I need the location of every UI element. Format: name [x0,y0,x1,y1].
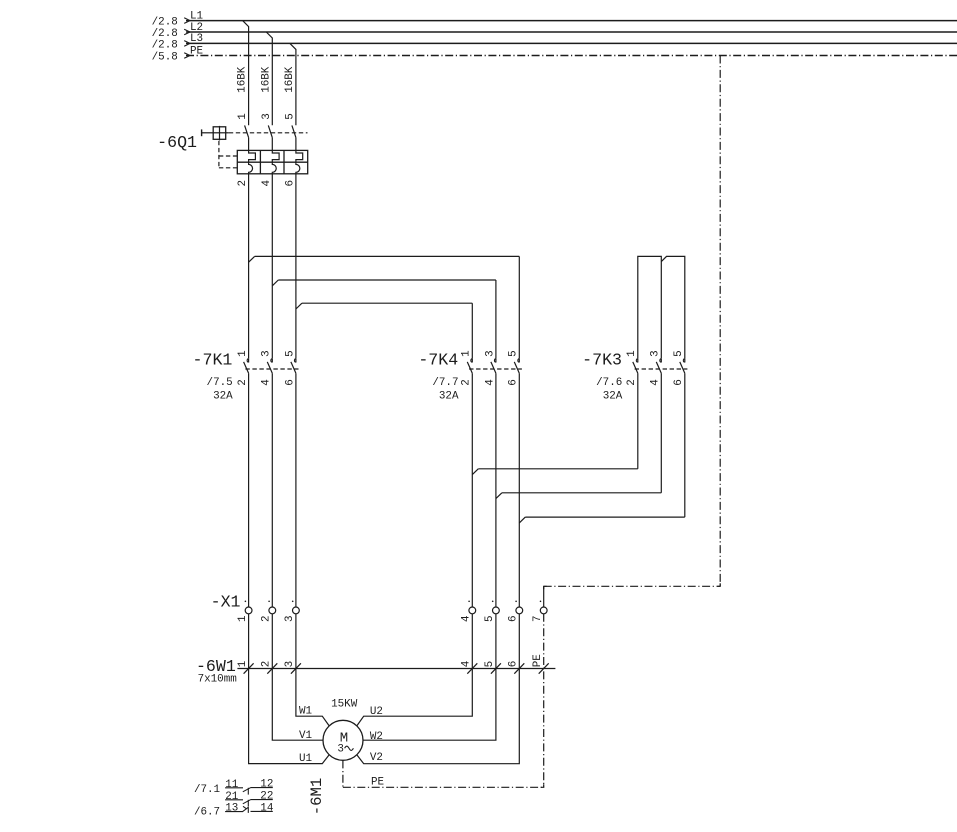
PE wire horizontal at motor [343,786,544,788]
contactor -7K1 pole 2 main contact pins 3-4 [261,350,273,385]
wire -7K3:6 to phase junction on -7K4:6 wire [519,373,685,523]
cable -6W1 conductor PE marker [532,654,549,673]
aux contact 11-12 (NC) [225,779,273,795]
svg-text:2: 2 [261,661,273,668]
wire L2 to -6Q1:3 [266,32,272,125]
svg-text:/7.5: /7.5 [207,377,233,389]
svg-text:PE: PE [371,777,384,789]
contactor -7K3 pole 3 main contact pins 5-6 [673,350,685,385]
wire -7K1:4 to -X1:2 [271,373,273,607]
svg-text:1: 1 [237,113,249,120]
terminal -X1:7 [532,601,547,623]
svg-text:/7.1: /7.1 [194,784,221,796]
PE wire corner joints [544,583,721,589]
svg-text:4: 4 [261,180,273,187]
svg-text:11: 11 [225,779,239,791]
svg-text:16BK: 16BK [237,66,249,93]
terminal -X1:3 [284,601,299,623]
contactor -7K4 pole 1 main contact pins 1-2 [461,350,473,386]
svg-text:12: 12 [260,779,273,791]
svg-text:V2: V2 [370,752,383,764]
svg-text:32A: 32A [603,390,623,402]
svg-text:32A: 32A [439,390,459,402]
svg-text:/2.8: /2.8 [152,28,178,40]
svg-text:1: 1 [237,660,249,667]
contactor -7K1 mechanical link dashed line [245,368,298,370]
svg-text:L2: L2 [190,22,203,34]
cable -6W1 7x10mm [196,657,555,685]
svg-text:PE: PE [532,654,544,667]
PE wire corner joint at motor [541,784,544,787]
breaker -6Q1 actuation dashed link line [229,132,308,134]
svg-text:6: 6 [284,180,296,187]
svg-text:W1: W1 [299,705,313,717]
wire -7K4:6 to -X1:6 [518,373,520,607]
motor -6M1 symbol M 3~ [323,720,363,760]
svg-text:2: 2 [626,379,638,386]
terminal -X1:2 [261,601,276,623]
svg-text:6: 6 [673,379,685,386]
svg-text:6: 6 [508,379,520,386]
breaker -6Q1 pole 2 switch contact pin 3 [261,113,273,137]
svg-text:1: 1 [237,615,249,622]
svg-text:5: 5 [284,113,296,120]
terminal -X1:6 [508,601,523,623]
svg-text:16BK: 16BK [284,66,296,93]
breaker -6Q1 dashed stub upper [219,155,237,157]
svg-text:/5.8: /5.8 [152,52,178,64]
contactor -7K4 pole 2 main contact pins 3-4 [484,350,496,385]
svg-text:-6M1: -6M1 [308,778,326,815]
breaker -6Q1 actuator symbol [213,126,229,140]
svg-text:7: 7 [532,615,544,622]
svg-text:22: 22 [260,791,273,803]
svg-text:U1: U1 [299,753,313,765]
aux contact 13-14 (NO) [225,802,273,814]
star-point bridge wire -7K3:1 to -7K3:3 [638,256,662,358]
contactor -7K4 pole 3 main contact pins 5-6 [508,350,520,385]
svg-text:PE: PE [190,45,203,57]
contactor -7K4 mechanical link dashed line [469,368,522,370]
svg-text:14: 14 [260,802,273,814]
power rail L2 with cross-reference /2.8 [152,22,957,40]
power rail L1 with cross-reference /2.8 [152,10,957,28]
svg-text:-7K1: -7K1 [193,350,233,369]
motor PE pigtail dashed [342,760,344,787]
power rail L3 with cross-reference /2.8 [152,33,957,51]
wire L3 to -6Q1:5 [290,43,296,125]
svg-text:-7K4: -7K4 [418,350,458,369]
svg-text:/2.8: /2.8 [152,17,178,29]
contactor -7K1 device tag / cross-ref /7.5 / 32A [193,350,234,402]
svg-text:5: 5 [484,661,496,668]
breaker -6Q1 trip unit box (magnetic + thermal releases) [237,150,307,173]
contactor -7K4 device tag / cross-ref /7.7 / 32A [418,350,459,402]
svg-text:13: 13 [225,803,238,815]
svg-text:W2: W2 [370,731,383,743]
cable -6W1 conductor 1 marker [237,660,254,673]
svg-text:3: 3 [284,615,296,622]
svg-text:4: 4 [261,379,273,386]
breaker -6Q1 dashed link to trip unit [218,141,220,168]
svg-text:1: 1 [461,350,473,357]
wire -6Q1:4 to -7K1:3 [271,174,273,358]
svg-text:3: 3 [484,350,496,357]
svg-text:5: 5 [508,350,520,357]
aux contact 21-22 (NC) [225,791,273,807]
breaker -6Q1 manual operating handle [202,129,214,136]
svg-text:-X1: -X1 [211,593,241,612]
svg-text:/6.7: /6.7 [194,806,220,818]
svg-text:3: 3 [337,744,344,756]
svg-text:L1: L1 [190,10,204,22]
svg-text:6: 6 [508,661,520,668]
wire -7K3:4 to phase junction on -7K4:4 wire [496,373,661,498]
breaker -6Q1 pole 3 release elements [296,150,303,173]
wire -X1:3 to motor W1 [296,614,329,726]
svg-text:7x10mm: 7x10mm [198,673,237,685]
svg-text:4: 4 [650,379,662,386]
contactor -7K3 device tag / cross-ref /7.6 / 32A [582,350,623,402]
contactor -7K3 mechanical link dashed line [635,368,688,370]
svg-text:15KW: 15KW [331,698,358,710]
wire -7K1:2 to -X1:1 [248,373,250,607]
wire -6Q1:2 to -7K1:1 [248,174,250,358]
contactor -7K3 pole 1 main contact pins 1-2 [626,350,638,386]
terminal -X1:1 [237,601,252,623]
svg-text:3: 3 [650,350,662,357]
PE wire horizontal to -X1:7 [544,585,721,587]
cable -6W1 conductor 3 marker [284,661,301,674]
svg-text:21: 21 [225,791,239,803]
wire -7K4:4 to -X1:5 [495,373,497,607]
svg-text:2: 2 [237,180,249,187]
cable -6W1 conductor 4 marker [461,661,478,674]
power rail PE with cross-reference /5.8 [152,45,957,63]
cable -6W1 conductor 2 marker [261,661,278,674]
svg-text:/7.7: /7.7 [432,377,458,389]
svg-text:-7K3: -7K3 [582,350,622,369]
svg-text:V1: V1 [299,730,313,742]
breaker -6Q1 pole 3 switch contact pin 5 [284,113,296,137]
svg-text:5: 5 [284,350,296,357]
svg-text:3: 3 [261,113,273,120]
svg-text:3: 3 [261,350,273,357]
breaker -6Q1 pole 1 switch contact pin 1 [237,113,249,138]
breaker -6Q1 pole 2 release elements [272,150,279,173]
wire -6Q1 pole 2 contact to trip box [271,138,273,151]
PE wire from rail down at right [719,56,721,587]
branch wire phase 3 to -7K4:1 with junction jog [296,303,472,358]
svg-text:5: 5 [673,350,685,357]
contactor -7K1 pole 3 main contact pins 5-6 [284,350,296,385]
svg-text:L3: L3 [190,33,203,45]
svg-text:16BK: 16BK [260,66,272,93]
svg-text:5: 5 [484,615,496,622]
svg-text:1: 1 [626,350,638,357]
breaker -6Q1 dashed stub lower [219,167,237,169]
svg-text:2: 2 [237,379,249,386]
wire -6Q1 pole 1 contact to trip box [248,138,250,151]
motor circuit breaker -6Q1 device tag [157,133,197,152]
svg-text:2: 2 [461,379,473,386]
wire -X1:5 to motor W2 [363,614,496,740]
wire L1 to -6Q1:1 [243,21,249,126]
svg-text:6: 6 [284,379,296,386]
svg-text:/7.6: /7.6 [596,377,622,389]
wire -X1:2 to motor V1 [272,614,323,740]
cable -6W1 conductor 6 marker [508,661,525,674]
svg-text:4: 4 [461,661,473,668]
wire -X1:1 to motor U1 [249,614,330,764]
wire -X1:4 to motor U2 [357,614,473,726]
star-point bridge wire -7K3:5 with junction jog [661,256,685,358]
svg-text:4: 4 [484,379,496,386]
svg-text:1: 1 [237,350,249,357]
terminal -X1:4 [461,601,476,623]
svg-text:U2: U2 [370,706,383,718]
svg-text:2: 2 [261,615,273,622]
wire -7K4:2 to -X1:4 [471,373,473,607]
branch wire phase 1 to -7K4:5 with junction jog [249,256,520,358]
svg-text:4: 4 [461,615,473,622]
wire -6Q1:6 to -7K1:5 [295,174,297,358]
contactor -7K3 pole 2 main contact pins 3-4 [650,350,662,385]
svg-text:/2.8: /2.8 [152,40,178,52]
wire -6Q1 pole 3 contact to trip box [295,138,297,151]
PE wire -X1:7 through cable to motor level [543,614,545,788]
branch wire phase 2 to -7K4:3 with junction jog [272,280,496,358]
svg-text:3: 3 [284,661,296,668]
wire -7K1:6 to -X1:3 [295,373,297,607]
contactor -7K1 pole 1 main contact pins 1-2 [237,350,249,386]
svg-text:6: 6 [508,615,520,622]
cable -6W1 conductor 5 marker [484,661,501,674]
wire -7K3:2 to phase junction on -7K4:2 wire [472,373,638,474]
svg-text:32A: 32A [213,390,233,402]
PE wire into terminal -X1:7 [543,586,545,607]
breaker -6Q1 pole 1 release elements [249,150,256,173]
wire -X1:6 to motor V2 [357,614,520,764]
terminal -X1:5 [484,601,499,623]
svg-text:-6Q1: -6Q1 [157,133,197,152]
